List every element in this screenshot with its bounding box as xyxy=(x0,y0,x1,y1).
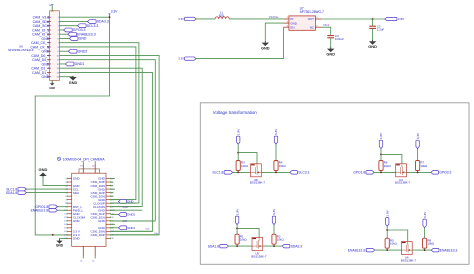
wire pin11 CAM_D0_- bus xyxy=(59,60,155,221)
svg-text:Voltage transformation: Voltage transformation xyxy=(213,110,257,115)
resistor R8 10k right xyxy=(424,228,426,239)
wire pin14 CAM_D1_- bus xyxy=(59,72,152,231)
capacitor C3 0.01uF xyxy=(327,35,334,37)
svg-text:2.2uF: 2.2uF xyxy=(377,28,385,32)
port 1.8V above R6 xyxy=(379,140,382,148)
wire SDA1.8 to transistor xyxy=(228,245,252,247)
camera left pin 6 nc xyxy=(67,195,72,197)
wire pin8 CAM_CK_N bus xyxy=(59,47,135,200)
voltage transformation group box xyxy=(200,103,469,264)
camera right pin 23 CSI0_D2P xyxy=(106,192,111,194)
camera module body xyxy=(72,173,106,246)
port 3.3V above R7 xyxy=(416,140,419,148)
resistor R6 10k left xyxy=(380,149,382,161)
camera right pin 20 CSI0_D3P xyxy=(106,181,111,183)
svg-text:NC: NC xyxy=(310,25,314,29)
wire chip GND bottom row to ground xyxy=(60,238,68,240)
wire EN to lower 3.3V port xyxy=(196,27,283,58)
svg-text:GND: GND xyxy=(73,219,81,223)
svg-text:GND: GND xyxy=(39,167,48,172)
svg-text:EN: EN xyxy=(290,25,294,29)
ground below U7 GND xyxy=(264,41,266,42)
ground below chip left xyxy=(59,239,61,240)
svg-text:AP7361-28WG-7: AP7361-28WG-7 xyxy=(300,10,324,14)
connector pin 15 GND xyxy=(47,76,51,78)
camera module top pins xyxy=(82,163,84,173)
svg-text:CLK: CLK xyxy=(123,205,129,209)
camera left pin 15 nc xyxy=(67,227,72,229)
regulator U7 AP7361-28WG-7 body xyxy=(289,16,316,30)
svg-text:3.3V: 3.3V xyxy=(272,208,276,215)
U7 pin OUT xyxy=(315,18,321,20)
camera right pin 24 CSI0_D2N xyxy=(106,195,111,197)
svg-text:3.3V: 3.3V xyxy=(416,132,420,139)
resistor R4 10k right xyxy=(275,144,277,160)
port 3.3V above R2 xyxy=(272,216,275,225)
port 3.3V input lower + wire to EN xyxy=(185,57,197,60)
wire U5 to SDA3.3 xyxy=(263,245,282,247)
wire chip GND pin3 to ground up-symbol xyxy=(43,176,67,186)
wire row13 to bus xyxy=(111,220,156,222)
connector pin 5 CAM_IO_0 xyxy=(47,33,51,35)
camera left pin 17 3.3 V xyxy=(67,234,72,236)
svg-text:SCL3.3: SCL3.3 xyxy=(87,24,99,28)
wire ENABLE1.8 to transistor xyxy=(375,249,402,251)
camera right pin 28 GND xyxy=(106,209,111,211)
wire U3 to GPO3.3 xyxy=(406,171,430,173)
svg-text:ENABLE3.3: ENABLE3.3 xyxy=(440,248,458,252)
wire GPO1.8 to transistor xyxy=(374,171,396,173)
camera right pin 26 CLCK0P xyxy=(106,202,111,204)
svg-text:100M030-04_DPI_CAMERA: 100M030-04_DPI_CAMERA xyxy=(63,157,106,161)
connector pin 2 CAM_SDA xyxy=(47,20,51,22)
port 3.3V input top xyxy=(185,17,197,20)
svg-text:2.8V: 2.8V xyxy=(398,17,404,21)
U7 pin IN xyxy=(284,18,289,20)
camera right pin 21 CSI0_D3N xyxy=(106,185,111,187)
svg-text:0.01uF: 0.01uF xyxy=(335,37,344,41)
capacitor C2 2.2uF xyxy=(372,19,374,26)
resistor R3 10k left xyxy=(237,144,239,160)
camera left pin 3 GND xyxy=(67,185,72,187)
camera left pin 1 GND xyxy=(67,178,72,180)
svg-text:VCC3+: VCC3+ xyxy=(269,15,279,19)
svg-text:10kΩ: 10kΩ xyxy=(279,164,287,168)
port ENABLE3.3 xyxy=(431,248,439,252)
svg-text:10kΩ: 10kΩ xyxy=(240,238,248,242)
svg-text:1.8V: 1.8V xyxy=(385,209,389,216)
svg-text:GND: GND xyxy=(326,52,335,57)
camera left pin 13 GND xyxy=(67,220,72,222)
wire U7 GND pin to ground xyxy=(265,23,283,42)
connector pin 12 GND xyxy=(47,63,51,65)
svg-text:GND1: GND1 xyxy=(127,226,135,230)
svg-text:GND: GND xyxy=(73,237,81,241)
wire SLC1.8 to transistor xyxy=(233,171,251,173)
camera left pin 16 3.3 V xyxy=(67,230,72,232)
port 1.8V above R3 xyxy=(237,136,240,144)
connector pin 13 CAM_D1_+ xyxy=(47,67,51,69)
wire row8 to bus xyxy=(111,202,136,204)
resistor R1 10k left xyxy=(236,225,238,235)
svg-text:SLC1.8: SLC1.8 xyxy=(212,171,223,175)
svg-text:3.3V: 3.3V xyxy=(274,128,278,135)
connector pin 7 CAM_CK_+ xyxy=(47,42,51,44)
wire pin6 + netflag GND xyxy=(59,37,69,39)
camera left pin 10 PWD_L xyxy=(67,209,72,211)
port SDA3.3 xyxy=(282,244,290,248)
netflag GND2 right of chip xyxy=(111,214,119,216)
ground symbol up near chip xyxy=(42,176,44,177)
svg-text:10kΩ: 10kΩ xyxy=(420,164,428,168)
wire L1 to U7 IN xyxy=(229,18,283,20)
connector pin 14 CAM_D1_- xyxy=(47,71,51,73)
wire: 3.3V net vertical from top label down left side xyxy=(35,14,109,235)
camera right pin 33 GND xyxy=(106,227,111,229)
port 3.3V above R4 xyxy=(274,136,277,144)
camera right pin 35 CSI0_D0P xyxy=(106,234,111,236)
netflag ENABLE1.8 at PWD_L pin xyxy=(57,209,67,211)
svg-text:GND: GND xyxy=(69,81,78,85)
wire gate branch U8 xyxy=(238,153,257,165)
camera right pin 30 CSI0_D1N xyxy=(106,216,111,218)
U7 pin EN xyxy=(284,26,289,28)
svg-text:3.3V: 3.3V xyxy=(111,10,118,14)
ground below C2 xyxy=(372,40,374,41)
svg-text:GND: GND xyxy=(368,44,377,49)
svg-text:SDA1.8: SDA1.8 xyxy=(208,244,220,248)
svg-text:BSS138K-7: BSS138K-7 xyxy=(401,258,416,262)
svg-text:GND2: GND2 xyxy=(127,213,135,217)
netflag GPIO1.8 at RST_L pin xyxy=(57,206,67,208)
svg-text:GND: GND xyxy=(261,46,270,51)
camera left pin 9 RST_L xyxy=(67,206,72,208)
camera module bottom pins xyxy=(82,246,84,256)
svg-text:1.8V: 1.8V xyxy=(379,132,383,139)
connector pin 1 CAM_V3.3 xyxy=(47,16,51,18)
svg-text:ENABLE1.8: ENABLE1.8 xyxy=(348,248,366,252)
camera left pin 18 GND xyxy=(67,237,72,239)
svg-text:SDA3.3: SDA3.3 xyxy=(97,20,109,24)
ground below connector pin15 xyxy=(72,76,74,77)
camera module top tab box xyxy=(79,169,99,173)
camera right pin 22 GND xyxy=(106,188,111,190)
wire pin7 CAM_CK_+ bus xyxy=(59,43,138,203)
svg-text:NC1: NC1 xyxy=(323,23,329,27)
camera left pin 12 CLCK0M xyxy=(67,216,72,218)
camera right pin 19 GND xyxy=(106,178,111,180)
camera left pin 2 nc xyxy=(67,181,72,183)
connector pin 11 CAM_D0_- xyxy=(47,59,51,61)
svg-text:ENABLE1.8: ENABLE1.8 xyxy=(31,209,49,213)
wire gate branch U5 xyxy=(237,228,259,238)
port SLC3.3 xyxy=(290,171,298,175)
U7 pin GND xyxy=(284,22,289,24)
wire pin13 CAM_D1_+ bus xyxy=(59,68,142,206)
wire row17 to bus xyxy=(111,234,160,236)
camera right pin 25 GND xyxy=(106,199,111,201)
svg-text:CSI0_D0P: CSI0_D0P xyxy=(91,233,105,237)
port 1.8V above R1 xyxy=(235,216,238,225)
svg-text:60Ω: 60Ω xyxy=(219,14,225,18)
wire pin3 + netflag SCL3.3 xyxy=(59,25,77,27)
netflag GND1 right of chip xyxy=(111,227,119,229)
svg-text:10kΩ: 10kΩ xyxy=(241,164,249,168)
svg-text:BSS138K-7: BSS138K-7 xyxy=(251,254,266,258)
wire pin10 CAM_D0_+ bus xyxy=(59,55,159,234)
svg-text:SDA3.3: SDA3.3 xyxy=(291,244,303,248)
U7 pin NC xyxy=(315,26,321,28)
camera left pin 4 SCL xyxy=(67,188,72,190)
connector pin 4 CAM_IO_1 xyxy=(47,29,51,31)
connector pin 10 CAM_D0_+ xyxy=(47,54,51,56)
camera left pin 7 nc xyxy=(67,199,72,201)
netflag GND right of chip row7 xyxy=(111,199,119,201)
svg-text:GND: GND xyxy=(42,75,50,79)
wire gate branch U4 xyxy=(387,230,408,242)
connector pin 9 GND xyxy=(47,50,51,52)
wire 3.3V port to L1 xyxy=(196,18,215,20)
wire U7 NC to C3 xyxy=(321,27,331,35)
camera right pin 34 CSI0_D0N xyxy=(106,230,111,232)
resistor R7 10k right xyxy=(417,149,419,161)
camera left pin 8 nc xyxy=(67,202,72,204)
svg-text:SDA1.8: SDA1.8 xyxy=(6,191,18,195)
svg-text:10kΩ: 10kΩ xyxy=(277,238,285,242)
camera right pin 32 nc xyxy=(106,223,111,225)
wire row10 to bus xyxy=(111,209,143,211)
camera left pin 14 nc xyxy=(67,223,72,225)
transistor U5 BSS138K-7 xyxy=(252,238,263,251)
ground below C3 xyxy=(330,47,332,48)
svg-text:SDA: SDA xyxy=(73,191,79,195)
svg-text:1.8V: 1.8V xyxy=(236,128,240,135)
svg-text:GPO1.8: GPO1.8 xyxy=(353,171,365,175)
wire U7 OUT to 2.8V port xyxy=(321,18,385,20)
wire pin2 + netflag SDA3.3 xyxy=(59,20,87,22)
camera right pin 27 CLCK0N xyxy=(106,206,111,208)
connector pin 6 GND xyxy=(47,37,51,39)
svg-text:GND: GND xyxy=(73,177,81,181)
svg-text:3.3V: 3.3V xyxy=(423,211,427,218)
camera right pin 36 nc xyxy=(106,237,111,239)
wire U4 to ENABLE3.3 xyxy=(412,249,431,251)
camera left pin 5 SDA xyxy=(67,192,72,194)
port 2.8V output xyxy=(385,17,397,20)
svg-text:OUT: OUT xyxy=(308,17,314,21)
svg-text:GND2: GND2 xyxy=(78,49,88,53)
svg-text:3.3V: 3.3V xyxy=(178,57,184,61)
camera module U1 100M030-04_DPI_CAMERA title xyxy=(57,157,60,160)
port GPO3.3 xyxy=(431,171,439,175)
transistor U4 BSS138K-7 xyxy=(402,242,413,255)
wire gate branch U3 xyxy=(381,154,402,164)
wire chip right pin rows short stubs xyxy=(111,178,115,180)
svg-text:10kΩ: 10kΩ xyxy=(390,242,398,246)
camera right pin 29 CSI0_D1P xyxy=(106,213,111,215)
wire U8 to SLC3.3 xyxy=(261,171,289,173)
wire row9 to bus xyxy=(111,206,139,208)
svg-text:GND: GND xyxy=(49,86,55,90)
wire pin9 + netflag GND2 xyxy=(59,50,68,52)
svg-text:GND: GND xyxy=(98,219,106,223)
junction at C2 xyxy=(372,18,374,20)
connector U6 SFW15R-2STE1LF body xyxy=(50,11,60,81)
connector top pin stub xyxy=(51,5,53,11)
connector bottom shield pin to GND xyxy=(51,80,53,83)
transistor U8 BSS138K-7 xyxy=(251,164,262,177)
svg-text:10kΩ: 10kΩ xyxy=(427,242,435,246)
camera left pin 11 GND xyxy=(67,213,72,215)
svg-text:GND: GND xyxy=(56,244,64,248)
wire pin1 CAM_V3.3 to 3.3V rail xyxy=(59,16,109,18)
resistor R2 10k right xyxy=(273,225,275,235)
port 3.3V above R8 xyxy=(423,219,426,228)
svg-text:BSS138K-7: BSS138K-7 xyxy=(395,181,410,185)
wire row16 to bus xyxy=(111,230,153,232)
port 1.8V above R5 xyxy=(386,218,389,227)
resistor R5 10k left xyxy=(386,226,388,238)
svg-text:SLC3.3: SLC3.3 xyxy=(298,171,309,175)
wire pin12 + netflag GND1 xyxy=(59,63,65,65)
netflag SDA1.8 + wire to SDA pin xyxy=(26,192,67,194)
wire pin5 + netflag ENABLE3.3 xyxy=(59,33,67,35)
svg-text:GND: GND xyxy=(79,37,87,41)
svg-text:10kΩ: 10kΩ xyxy=(384,164,392,168)
transistor U3 BSS138K-7 xyxy=(396,164,407,177)
svg-text:1.8V: 1.8V xyxy=(235,208,239,215)
inductor L1 60ohm xyxy=(215,17,229,19)
connector pin 3 CAM_SCA xyxy=(47,25,51,27)
wire 3.3V rail junction at chip xyxy=(52,234,54,236)
camera right pin 31 GND xyxy=(106,220,111,222)
wire pin4 + netflag GPO3.3 xyxy=(59,29,63,31)
svg-text:3.3V: 3.3V xyxy=(178,17,184,21)
connector pin 8 CAM_CK_N xyxy=(47,46,51,48)
svg-text:BSS138K-7: BSS138K-7 xyxy=(250,181,265,185)
netflag SLC1.8 + wire to SCL pin xyxy=(26,188,67,190)
svg-text:GPO3.3: GPO3.3 xyxy=(439,171,451,175)
wire pin15 GND to ground xyxy=(59,76,73,78)
svg-text:GND1: GND1 xyxy=(75,62,85,66)
